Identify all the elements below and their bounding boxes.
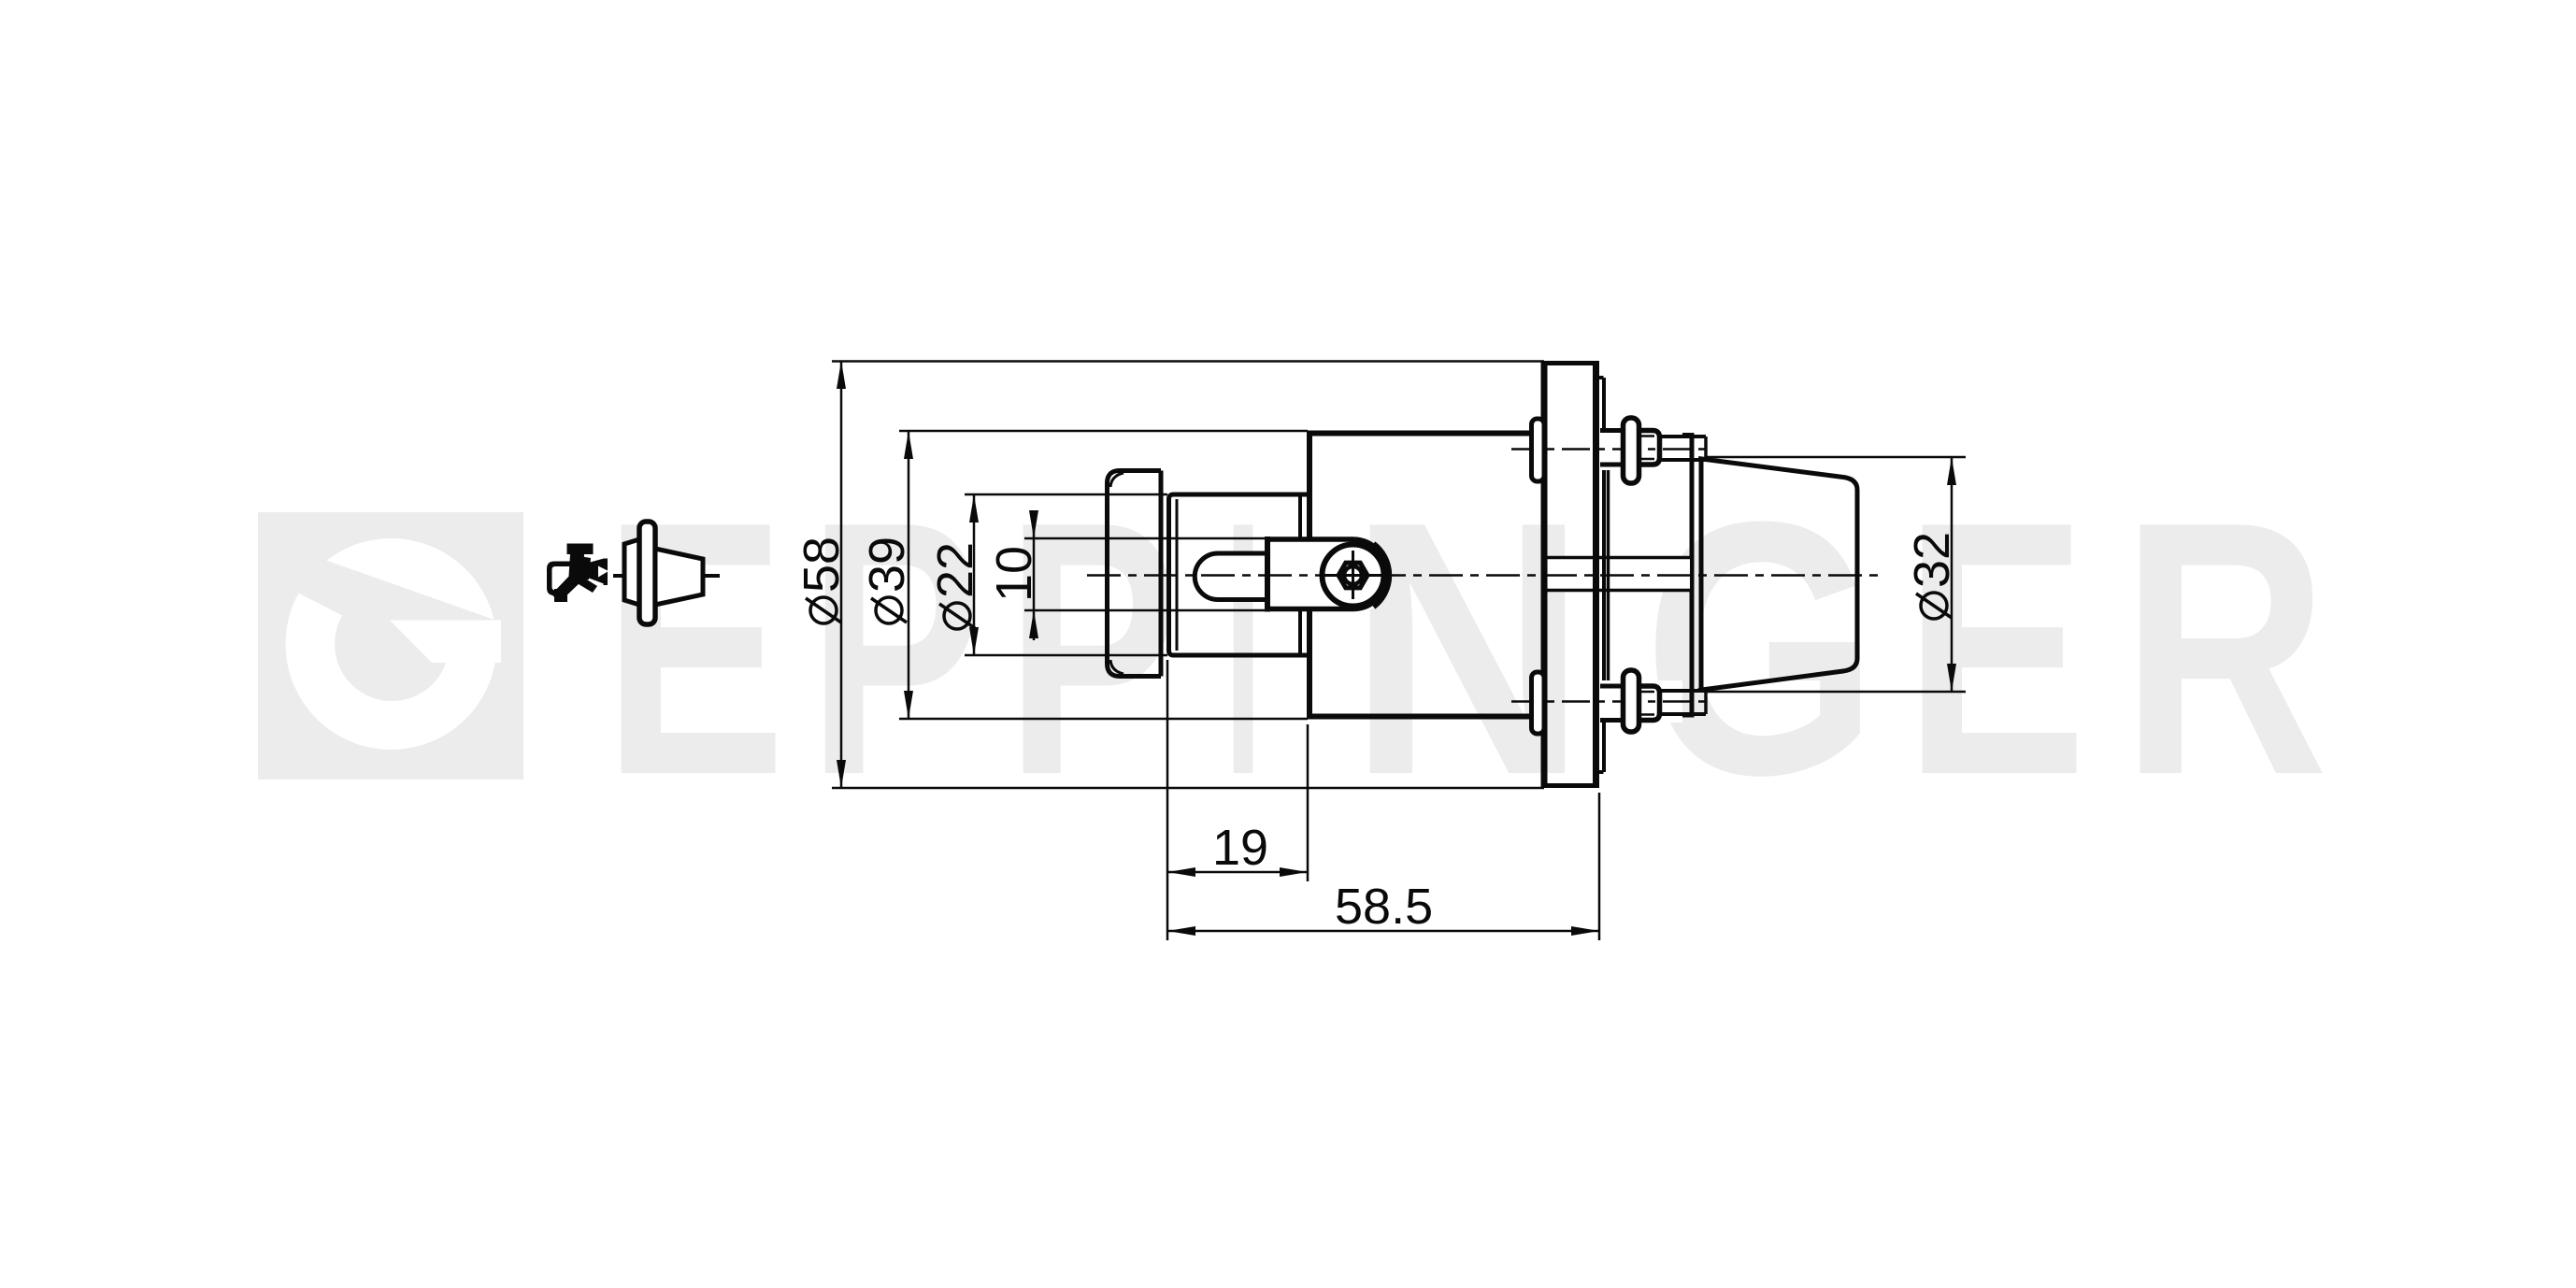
- bolt axis: [1511, 448, 1708, 451]
- svg-text:32: 32: [1904, 532, 1960, 588]
- extension line D22 top: [965, 494, 1167, 496]
- icon axial driven tool: [613, 522, 720, 624]
- main block housing D39: [1307, 431, 1312, 719]
- cylinder right ring: [1298, 494, 1302, 655]
- white ring of logo: [286, 538, 497, 750]
- svg-text:P: P: [1006, 447, 1180, 850]
- extension line 10 top: [1024, 537, 1267, 540]
- white right wedge: [390, 621, 501, 664]
- watermark logo square: [258, 512, 523, 780]
- polygon taper cone D32: [1698, 457, 1857, 692]
- gray centre disc redrawn: [335, 587, 449, 701]
- watermark text EPPINGER: [603, 447, 2328, 850]
- stud end: [1660, 689, 1707, 693]
- label D58: [794, 537, 850, 623]
- shaft bore band: [1544, 436, 1692, 715]
- bolt axis: [1511, 700, 1708, 703]
- dimensions: [841, 361, 1966, 940]
- svg-text:22: 22: [927, 542, 983, 598]
- collet nut: [1108, 471, 1162, 677]
- extension line 10 bottom: [1024, 609, 1267, 612]
- pin centre circle: [1344, 566, 1362, 584]
- label D22: [927, 542, 983, 629]
- cylinder chamfer ring: [1176, 499, 1179, 651]
- washer right: [1624, 670, 1639, 732]
- dim D58 line: [840, 361, 843, 788]
- keyway slot: [1195, 553, 1267, 600]
- extension line D32 bottom: [1706, 691, 1966, 694]
- svg-text:58.5: 58.5: [1335, 879, 1433, 935]
- dim 19 line: [1167, 871, 1308, 874]
- dim 10 line: [1033, 511, 1036, 640]
- extension line flange face: [1598, 793, 1601, 940]
- pin head bulge arc: [1374, 543, 1390, 608]
- centerline main axis: [1087, 574, 1881, 577]
- extension line D39 top: [899, 430, 1308, 433]
- label D32: [1904, 532, 1960, 619]
- extension line D22 bottom: [965, 654, 1167, 657]
- svg-text:P: P: [808, 447, 983, 850]
- extension line block face: [1307, 724, 1309, 881]
- extension line D32 top: [1706, 456, 1966, 459]
- flange D58: [1541, 361, 1604, 788]
- stud end: [1660, 435, 1707, 438]
- nut chamfer arc top: [1110, 473, 1123, 487]
- gray diagonal band: [259, 537, 505, 663]
- pin crosshair: [1321, 574, 1386, 577]
- extension line D39 bottom: [899, 718, 1308, 721]
- rear housing: [1604, 433, 1693, 718]
- washer right: [1624, 418, 1639, 483]
- collet body cylinder D22: [1169, 494, 1310, 499]
- dimension labels: [794, 532, 1960, 935]
- nut chamfer arc bottom: [1110, 660, 1123, 674]
- washer left: [1532, 672, 1545, 734]
- label D39: [859, 537, 915, 623]
- svg-text:E: E: [1904, 447, 2087, 850]
- extension line shoulder: [1166, 660, 1169, 940]
- icon radial driven tool: [547, 544, 608, 603]
- label 10: [986, 546, 1042, 602]
- svg-text:39: 39: [859, 537, 915, 593]
- extension line D58 top: [832, 360, 1544, 363]
- svg-text:I: I: [1224, 447, 1262, 850]
- lower bolt: [1511, 670, 1708, 734]
- washer left: [1532, 419, 1545, 481]
- dim D32 line: [1951, 457, 1953, 692]
- svg-text:E: E: [603, 447, 786, 850]
- dim 58.5 line: [1167, 930, 1599, 933]
- dim D22 line: [973, 494, 976, 655]
- pin boss with cross pin: [1265, 537, 1392, 614]
- nut: [1639, 686, 1660, 721]
- upper bolt: [1511, 418, 1708, 483]
- svg-text:10: 10: [986, 546, 1042, 602]
- extension line D58 bottom: [832, 787, 1544, 790]
- pin head outer circle: [1323, 545, 1384, 607]
- bolt boss lines: [1600, 428, 1624, 433]
- flange step plate: [1602, 378, 1606, 772]
- svg-text:R: R: [2121, 447, 2328, 850]
- dimension arrowheads: [837, 361, 1956, 936]
- svg-text:N: N: [1348, 447, 1587, 850]
- hex socket: [1338, 563, 1367, 588]
- nut: [1639, 431, 1660, 465]
- bolt boss lines: [1600, 684, 1624, 689]
- svg-text:58: 58: [794, 537, 850, 593]
- dim D39 line: [908, 431, 910, 719]
- svg-text:19: 19: [1212, 820, 1268, 876]
- svg-text:G: G: [1643, 447, 1879, 850]
